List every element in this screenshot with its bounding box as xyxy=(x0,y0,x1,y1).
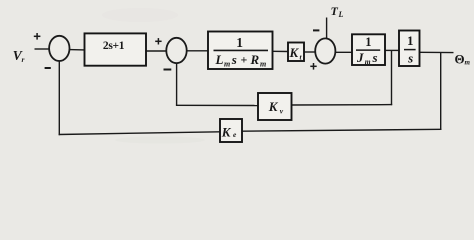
svg-text:K: K xyxy=(268,99,279,114)
svg-text:T: T xyxy=(331,4,339,18)
svg-text:m: m xyxy=(465,59,471,67)
svg-text:s: s xyxy=(231,52,237,67)
svg-text:s: s xyxy=(407,50,413,65)
svg-text:1: 1 xyxy=(365,35,371,49)
svg-text:L: L xyxy=(215,52,224,67)
svg-text:+: + xyxy=(241,52,248,66)
svg-text:1: 1 xyxy=(407,33,414,48)
svg-text:Θ: Θ xyxy=(455,52,465,67)
svg-text:1: 1 xyxy=(236,35,243,50)
svg-text:2s+1: 2s+1 xyxy=(103,40,125,52)
svg-text:R: R xyxy=(250,52,260,67)
svg-text:s: s xyxy=(372,50,378,65)
svg-text:K: K xyxy=(221,124,232,139)
svg-text:m: m xyxy=(365,57,371,66)
svg-text:K: K xyxy=(289,45,300,60)
svg-text:J: J xyxy=(356,50,364,65)
svg-text:m: m xyxy=(260,59,266,68)
svg-text:m: m xyxy=(224,59,230,68)
svg-text:r: r xyxy=(22,55,25,64)
svg-text:L: L xyxy=(338,10,344,19)
